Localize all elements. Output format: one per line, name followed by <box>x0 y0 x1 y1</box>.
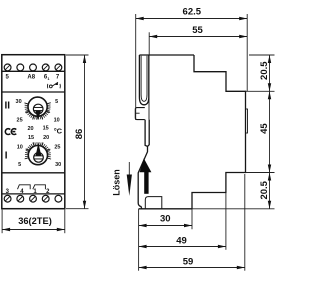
clip inner ledge <box>145 197 162 209</box>
right dim extension lines <box>192 55 275 209</box>
bottom contact bracket 4-1 <box>18 185 31 189</box>
svg-text:62.5: 62.5 <box>183 7 202 18</box>
svg-text:30: 30 <box>16 99 22 105</box>
bezel U inner <box>141 56 147 102</box>
knob bump slot line <box>135 112 139 114</box>
svg-text:30: 30 <box>55 162 61 168</box>
svg-text:I: I <box>5 150 8 161</box>
bottom dim arrows <box>139 224 245 269</box>
svg-text:59: 59 <box>183 257 194 268</box>
svg-text:°C: °C <box>54 126 63 135</box>
svg-text:25: 25 <box>17 117 23 123</box>
svg-text:1: 1 <box>47 77 49 81</box>
svg-text:10: 10 <box>17 144 23 150</box>
body front face <box>148 120 150 147</box>
svg-text:A8: A8 <box>27 75 35 81</box>
svg-text:II: II <box>5 101 11 112</box>
svg-text:86: 86 <box>74 129 85 140</box>
top terminal strip line <box>2 70 65 72</box>
svg-text:5: 5 <box>18 162 21 168</box>
svg-text:49: 49 <box>176 235 187 246</box>
svg-text:20.5: 20.5 <box>259 180 270 199</box>
svg-text:45: 45 <box>259 123 270 134</box>
svg-text:10: 10 <box>54 117 60 123</box>
thin down arrow <box>128 162 130 177</box>
dial I <box>25 142 51 159</box>
svg-text:55: 55 <box>192 25 203 36</box>
relay contact symbol <box>47 82 60 88</box>
svg-text:20: 20 <box>27 126 33 132</box>
thick release arrow <box>140 158 152 172</box>
svg-text:20: 20 <box>43 135 49 141</box>
side view right stepped outline <box>192 55 246 209</box>
svg-text:Lösen: Lösen <box>112 169 122 196</box>
svg-text:15: 15 <box>28 135 34 141</box>
top terminal labels 5 A8 6 7 <box>6 75 60 82</box>
svg-text:30: 30 <box>160 214 171 225</box>
dim 86 arrows <box>83 55 86 209</box>
dial II <box>25 103 51 120</box>
bottom contact bracket 1-2 <box>33 185 46 189</box>
svg-text:5: 5 <box>55 99 58 105</box>
dim 62.5 <box>136 14 248 120</box>
top terminal screws <box>4 64 62 71</box>
front view outer box <box>2 55 65 209</box>
front face below bump <box>138 120 147 209</box>
side clip tab on right edge <box>246 109 248 133</box>
bottom dim extension lines <box>139 174 245 271</box>
svg-text:20.5: 20.5 <box>259 61 270 80</box>
CE mark <box>5 129 16 135</box>
bezel U outer <box>139 55 148 105</box>
side view bottom edge <box>139 208 192 210</box>
svg-text:15: 15 <box>43 126 49 132</box>
bottom terminal strip line <box>2 193 65 195</box>
dim 36(2TE) extension lines <box>2 210 65 234</box>
dim 36(2TE) arrows <box>2 228 65 231</box>
divider upper <box>2 91 65 93</box>
dim 86 extension lines <box>66 55 89 209</box>
svg-text:25: 25 <box>54 144 60 150</box>
right dim arrows <box>268 55 271 209</box>
side view top edge <box>139 54 194 56</box>
dim 55 <box>149 32 247 55</box>
knob bump <box>135 108 145 120</box>
bottom terminal screws <box>4 195 62 202</box>
divider lower <box>2 172 65 174</box>
bottom terminal labels 3 4 1 2 <box>6 189 51 195</box>
svg-text:36(2TE): 36(2TE) <box>18 216 52 226</box>
